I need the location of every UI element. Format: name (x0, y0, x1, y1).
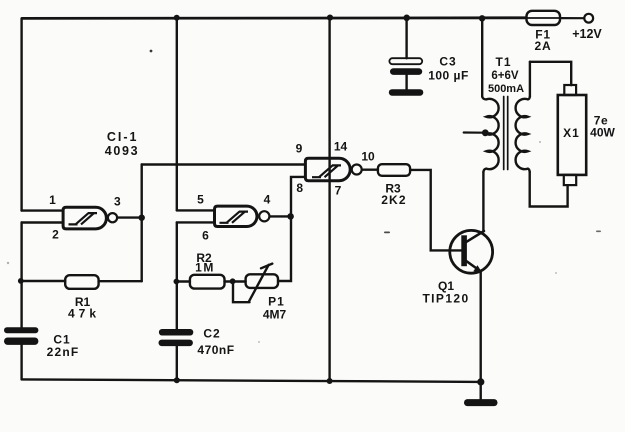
svg-text:40W: 40W (590, 126, 615, 140)
svg-text:500mA: 500mA (488, 83, 524, 95)
svg-text:C2: C2 (203, 327, 220, 341)
svg-text:TIP120: TIP120 (422, 291, 469, 305)
svg-text:5: 5 (197, 192, 204, 206)
svg-text:4: 4 (264, 192, 271, 206)
svg-text:9: 9 (296, 141, 303, 155)
svg-text:8: 8 (296, 181, 303, 195)
svg-text:4093: 4093 (105, 144, 140, 158)
svg-text:1M: 1M (195, 261, 215, 275)
svg-text:7: 7 (335, 183, 342, 197)
svg-text:2A: 2A (535, 39, 552, 53)
svg-text:C3: C3 (439, 55, 456, 69)
svg-text:CI-1: CI-1 (107, 130, 139, 144)
svg-text:10: 10 (361, 149, 375, 163)
svg-text:2K2: 2K2 (381, 193, 407, 207)
svg-text:6+6V: 6+6V (491, 70, 519, 82)
svg-text:2: 2 (52, 227, 59, 241)
svg-text:3: 3 (114, 195, 121, 209)
svg-text:47k: 47k (68, 307, 100, 321)
svg-text:6: 6 (202, 228, 209, 242)
svg-text:4M7: 4M7 (263, 307, 287, 321)
svg-text:470nF: 470nF (197, 343, 234, 357)
svg-text:X1: X1 (563, 126, 580, 140)
svg-text:22nF: 22nF (47, 345, 80, 359)
svg-text:P1: P1 (268, 294, 285, 308)
svg-text:+12V: +12V (572, 27, 602, 41)
svg-text:100 µF: 100 µF (428, 69, 469, 83)
svg-text:14: 14 (334, 139, 348, 153)
svg-text:T1: T1 (495, 55, 511, 69)
svg-text:1: 1 (49, 193, 56, 207)
